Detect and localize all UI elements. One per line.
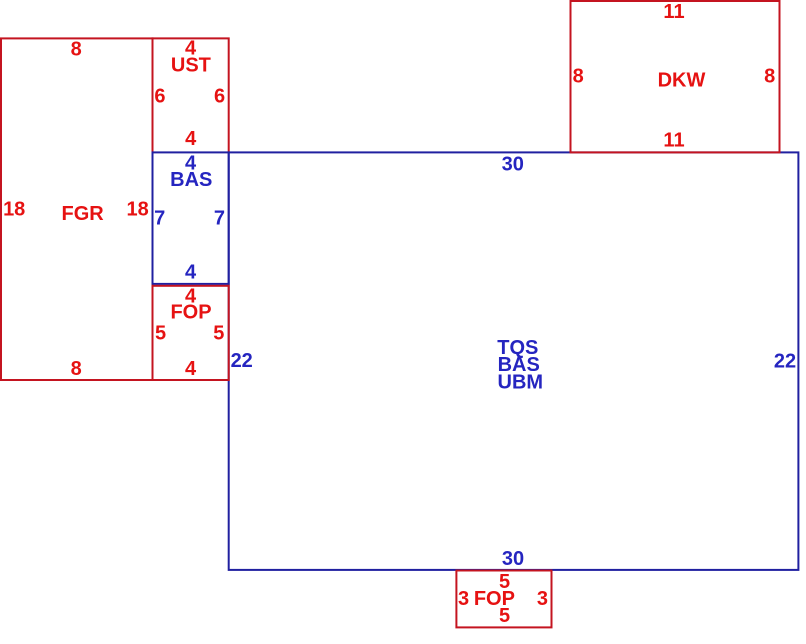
svg-text:18: 18	[126, 198, 148, 220]
svg-text:7: 7	[154, 208, 165, 230]
svg-text:8: 8	[71, 39, 82, 61]
svg-text:FGR: FGR	[61, 203, 104, 225]
svg-text:5: 5	[155, 323, 166, 345]
svg-text:11: 11	[663, 1, 684, 23]
svg-text:11: 11	[663, 130, 684, 152]
room DKW outline	[571, 1, 780, 152]
svg-text:DKW: DKW	[658, 70, 706, 92]
svg-text:5: 5	[499, 605, 510, 627]
svg-text:18: 18	[3, 198, 25, 220]
room TQS/BAS/UBM outline	[229, 152, 799, 570]
svg-text:30: 30	[502, 153, 524, 175]
svg-text:6: 6	[214, 86, 225, 108]
svg-text:4: 4	[185, 128, 197, 150]
room UST outline (open bottom, boundary shared with BAS)	[153, 38, 229, 152]
room FOP outline	[153, 286, 229, 380]
svg-text:5: 5	[213, 323, 224, 345]
svg-text:4: 4	[185, 261, 197, 283]
room BAS outline	[153, 152, 229, 284]
svg-text:7: 7	[214, 208, 225, 230]
svg-text:8: 8	[573, 65, 584, 87]
svg-text:22: 22	[231, 350, 253, 372]
svg-text:4: 4	[185, 358, 197, 380]
svg-text:8: 8	[71, 358, 82, 380]
svg-text:3: 3	[537, 588, 548, 610]
svg-text:30: 30	[502, 548, 524, 570]
room FOP2 outline	[456, 571, 551, 628]
room FGR outline	[1, 38, 153, 380]
svg-text:UBM: UBM	[498, 371, 544, 393]
svg-text:8: 8	[764, 66, 775, 88]
svg-text:6: 6	[154, 86, 165, 108]
svg-text:UST: UST	[171, 55, 211, 77]
svg-text:BAS: BAS	[170, 169, 212, 191]
svg-text:3: 3	[458, 588, 469, 610]
svg-text:FOP: FOP	[170, 302, 211, 324]
svg-text:22: 22	[774, 350, 796, 372]
